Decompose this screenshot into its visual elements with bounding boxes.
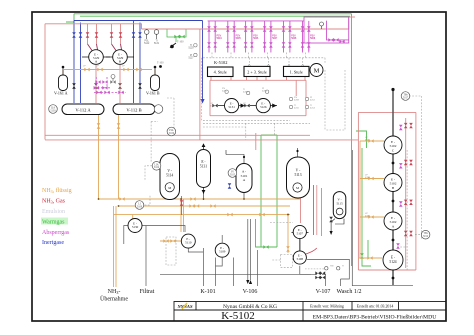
wire red header mid (142, 28, 200, 30)
wire red mid riser (255, 133, 257, 150)
wire red cross header 2 (45, 134, 310, 136)
orange stubs to V-161 (63, 70, 155, 75)
legend Warmgas (41, 218, 68, 225)
green valve pair in box (174, 35, 179, 39)
title block row divider (174, 309, 446, 311)
black connector E-5131 bottom to header (203, 194, 205, 200)
svg-text:M: M (296, 186, 299, 190)
signal lines compressor bottom (203, 119, 290, 121)
blue valve 4 (138, 32, 142, 37)
wire orange E-5110 inlet (160, 240, 181, 242)
magenta station valves (207, 26, 402, 248)
blue valve 3 (132, 32, 136, 37)
svg-text:5114: 5114 (166, 174, 173, 178)
instrument LIA V-5114 (152, 162, 161, 171)
main grey header line to E-5102 chain (392, 90, 394, 286)
svg-text:5006: 5006 (253, 38, 259, 40)
svg-text:5107: 5107 (297, 231, 304, 235)
signal vertical left of skid (201, 58, 203, 121)
wire V-107 leg (300, 266, 326, 286)
wire orange V-112B drop (118, 115, 120, 200)
wire red stufe23 drops (247, 77, 267, 81)
svg-text:4338: 4338 (365, 177, 371, 179)
wire red top right down (349, 16, 355, 18)
wire leg x233 (233, 258, 235, 287)
signal box bottom left (166, 237, 176, 265)
wire leg x257 (257, 250, 259, 286)
svg-text:5108: 5108 (297, 257, 304, 261)
wire red E-5129B outlet (119, 65, 121, 104)
station drop triangles (248, 64, 305, 67)
instrument circle right of V112B (154, 105, 163, 114)
instrument circle LIA V112A (49, 105, 58, 114)
orange valves E-5110 inlet (163, 239, 168, 243)
svg-text:V -: V - (296, 169, 301, 173)
svg-text:NH3-: NH3- (108, 289, 121, 295)
green box drop (175, 37, 177, 42)
red valve B1 (110, 32, 114, 37)
exchanger E-5124 (383, 250, 403, 270)
junction dots on orange headers (98, 198, 289, 215)
svg-text:Emulsion: Emulsion (42, 209, 65, 215)
node dot top (391, 88, 394, 91)
pump E-5129 A (82, 50, 110, 65)
wire green mid riser right (276, 135, 278, 247)
magenta cluster valves (94, 80, 124, 94)
black connector A-5101 bottom (243, 193, 245, 200)
wire blue drop V-112A right (80, 23, 82, 104)
svg-text:4. Stufe: 4. Stufe (214, 70, 227, 75)
blue valve 1 (72, 32, 76, 37)
vessel V-112 B (113, 104, 155, 115)
wire orange E-5124 inlet (358, 257, 382, 259)
svg-text:5106: 5106 (169, 132, 175, 135)
wire orange uebernahme drop 2 (115, 206, 117, 287)
wire red right box left (357, 112, 359, 270)
wire grey frame bottom right (352, 150, 413, 286)
wasch instrument circles (325, 267, 340, 270)
lines left of V-5115 (313, 185, 315, 235)
svg-text:5005: 5005 (236, 38, 242, 40)
svg-text:Erstellt am: 01.03.2014: Erstellt am: 01.03.2014 (357, 305, 394, 309)
wire red header mid drop (199, 29, 201, 140)
wire green header top 1 (74, 13, 352, 15)
svg-text:Filtrat: Filtrat (140, 289, 155, 295)
magenta box valves (328, 38, 333, 42)
cooler E-5131 circle (218, 99, 245, 113)
wire E-5108 right run (307, 259, 349, 286)
cooler E-5130 (128, 219, 142, 233)
wire red right box bottom (358, 269, 416, 271)
BOTTOM STREAM LABELS (100, 289, 362, 303)
wire orange E-5102B inlet (360, 178, 384, 180)
wire red frame top (45, 24, 142, 29)
wire red compressor loop bottom (210, 115, 306, 117)
wire green mid riser left (260, 135, 262, 247)
vessel V-5114 (160, 154, 180, 200)
dashed stub left of E-5107 (270, 222, 293, 224)
svg-text:V-112 B: V-112 B (126, 108, 141, 113)
svg-text:5113: 5113 (294, 173, 301, 177)
svg-text:V -: V - (167, 169, 172, 173)
wire orange E-5130 feed (132, 215, 134, 219)
wire blue center drop (202, 21, 204, 100)
black unions on drops (72, 83, 142, 88)
wire red E-5129B feed 2 (120, 24, 122, 44)
signal verticals right of M (324, 70, 326, 130)
cooler E-5110 (181, 234, 195, 248)
red drop to E-5110 (181, 196, 183, 215)
tiny instrument tags (83, 66, 371, 268)
dot T-100 bottom (157, 62, 164, 68)
svg-text:NH3, flüssig: NH3, flüssig (42, 187, 72, 194)
wire green bottom right riser 2 (368, 240, 381, 258)
small instruments compressor area (194, 44, 309, 109)
wire red right col a (405, 118, 407, 268)
motor M (310, 64, 323, 77)
vessel V-112 A (62, 104, 104, 115)
svg-text:5008: 5008 (291, 38, 297, 40)
svg-text:4336: 4336 (243, 106, 249, 108)
svg-text:Absperrgas: Absperrgas (42, 230, 70, 236)
tiny pump symbol T-100 (170, 41, 184, 49)
red valve cluster right col 1 (404, 123, 413, 236)
orange valves V-112 drops (97, 123, 101, 128)
svg-text:V-107: V-107 (316, 289, 331, 295)
magenta valves near E-5102 (399, 125, 403, 130)
signal box bottom mid (281, 254, 293, 267)
blue valve near A-5101 (228, 183, 232, 188)
wire orange V-112A drop (98, 115, 100, 200)
svg-text:5131: 5131 (154, 43, 160, 45)
blue arrow end (200, 99, 204, 104)
V-106 arrows (246, 280, 252, 284)
wire orange E-5102C inlet (360, 140, 384, 142)
V-5115 drain valves (329, 217, 333, 222)
svg-text:NH3, Gas: NH3, Gas (42, 199, 66, 205)
instrument PI top right (401, 92, 410, 101)
orange valves headers mid (119, 197, 124, 201)
signal line compressor top (203, 57, 325, 59)
LEGEND (41, 187, 72, 246)
cooler E-5126 circle (250, 99, 277, 113)
wire bottom header (160, 273, 311, 275)
wire blue header (74, 20, 203, 22)
wire green right downcomer (351, 14, 353, 266)
blue valve 2 (79, 32, 83, 37)
green instrument box top (167, 29, 186, 37)
wire orange right drop (287, 213, 289, 241)
vessel V-161 A (54, 66, 68, 96)
svg-text:4337: 4337 (365, 140, 371, 142)
orange drop to E-5108 (287, 241, 289, 253)
wire red E-5107 riser (300, 180, 302, 223)
red curve E-5108 to column (306, 248, 317, 254)
svg-text:K-101: K-101 (200, 289, 215, 295)
relief valve magenta box (320, 22, 324, 29)
svg-text:5110: 5110 (185, 241, 192, 245)
svg-text:4208: 4208 (294, 100, 300, 102)
column E-5131 vessel (197, 143, 211, 194)
logo cell divider (195, 302, 197, 311)
wire filtrat drop (145, 226, 147, 287)
cooler E-5108 (293, 251, 306, 264)
wire red compressor loop top (210, 79, 306, 81)
wire orange uebernahme drop 1 (113, 206, 115, 287)
wire red inner vertical (295, 80, 297, 96)
wire orange E-5102 riser (359, 141, 361, 258)
node dots between exchangers (392, 162, 395, 165)
red valve B2 (119, 32, 123, 37)
wire K-101 leg 1 (202, 248, 204, 286)
wire blue drop V-112B left (133, 21, 135, 104)
svg-text:5017: 5017 (403, 96, 409, 99)
svg-text:4214: 4214 (310, 108, 316, 110)
wire orange E-5110 drop 2 (183, 199, 185, 232)
signal V-5114 left (145, 166, 152, 180)
instrument PI mid (228, 169, 237, 178)
svg-text:4210: 4210 (294, 108, 300, 110)
svg-text:Wasch 1/2: Wasch 1/2 (336, 289, 361, 295)
NYNAS logo (176, 303, 193, 309)
vessel V-5113 (287, 157, 310, 198)
svg-text:5109: 5109 (219, 250, 226, 254)
magenta box internals (303, 43, 309, 51)
orange valves top header (84, 68, 373, 260)
title block divider erstellt cells (351, 302, 353, 311)
wire green mid bottom link (256, 219, 278, 247)
cooler E-5109 (215, 235, 229, 266)
red converge E-5129B (112, 44, 122, 51)
wire E-5130 left elbow (124, 226, 128, 245)
green valve bottom right (360, 253, 364, 258)
svg-text:2 + 3. Stufe: 2 + 3. Stufe (247, 70, 267, 75)
green valve bottom mid (263, 245, 268, 249)
svg-text:5007: 5007 (272, 38, 278, 40)
svg-text:M: M (168, 186, 171, 190)
wire magenta right box (304, 17, 349, 43)
svg-text:5129: 5129 (188, 48, 194, 50)
wire red right box top (358, 111, 416, 113)
svg-text:TBI: TBI (330, 266, 334, 268)
svg-text:5127: 5127 (188, 58, 194, 60)
wire green header top 2 (80, 15, 350, 17)
actuated valve center top (111, 75, 115, 82)
exchanger E-5102 C (384, 136, 402, 154)
wasch signal dashes (305, 268, 324, 270)
svg-text:V-112 A: V-112 A (75, 108, 91, 113)
wire orange top header (64, 69, 152, 71)
svg-text:4204: 4204 (243, 92, 249, 94)
svg-text:K-5102: K-5102 (221, 310, 255, 322)
svg-text:T-100: T-100 (177, 41, 184, 44)
instrument PI bottom right (421, 230, 430, 239)
title block vertical divider main (302, 302, 304, 322)
wire red stufe4 drops (211, 77, 231, 81)
wire blue drop V-112B right (139, 23, 141, 104)
red converge E-5129A (88, 44, 98, 51)
wire red E-5129A outlet (95, 65, 97, 104)
svg-text:4206: 4206 (262, 91, 268, 93)
svg-text:5104: 5104 (154, 166, 160, 169)
vessel V-161 B (146, 66, 160, 96)
wire E-5107 E-5108 link (299, 239, 301, 252)
svg-text:5108: 5108 (137, 205, 143, 208)
relief valves top mid (144, 30, 158, 39)
compressor box 1. Stufe (284, 66, 310, 76)
wire red E-5129A feed 1 (87, 24, 89, 44)
svg-text:V-106: V-106 (243, 289, 258, 295)
svg-text:EM-BP3.Daten\BP3-Betrieb\VISIO: EM-BP3.Daten\BP3-Betrieb\VISIO-Fließbild… (313, 313, 437, 320)
orange valves E-5102 inlets (368, 139, 373, 143)
wire red stufe1 drops (287, 77, 306, 81)
compressor box 4. Stufe (208, 67, 234, 77)
cooler E-5107 (292, 225, 309, 238)
vessel V-5115 (330, 192, 346, 235)
svg-text:4339: 4339 (365, 216, 371, 218)
wire red compressor loop left (209, 80, 211, 115)
wire red cross header (45, 139, 358, 141)
svg-text:5131: 5131 (228, 105, 235, 109)
svg-text:4335: 4335 (210, 106, 216, 108)
signal right top (409, 95, 421, 97)
svg-text:B: B (119, 60, 121, 64)
svg-text:5130: 5130 (132, 225, 139, 229)
svg-text:1. Stufe: 1. Stufe (290, 70, 303, 75)
svg-text:K-5102: K-5102 (214, 60, 227, 65)
compressor box 2+3 Stufe (244, 66, 270, 76)
red valve A2 (95, 32, 99, 37)
wire red frame left vertical (44, 24, 46, 140)
wire green header left drop (66, 14, 74, 22)
wire green mid top link (261, 134, 277, 136)
svg-text:5103: 5103 (50, 109, 56, 112)
wire blue drop V-112A left (73, 21, 75, 104)
wire V-106 duo (248, 219, 251, 280)
svg-text:Übernahme: Übernahme (100, 296, 128, 303)
svg-text:5124: 5124 (389, 260, 396, 264)
black connector V-5113 top (297, 148, 299, 157)
svg-text:Inertgase: Inertgase (42, 240, 64, 246)
wire red top right link (200, 17, 349, 29)
signal to PI bottom (415, 234, 421, 236)
TITLE BLOCK (174, 302, 446, 322)
wire red compressor loop right (305, 80, 307, 115)
relief valve tags (144, 41, 194, 60)
exchanger E-5102 A (384, 212, 402, 230)
svg-text:5105: 5105 (230, 173, 236, 176)
instrument LI mid (135, 201, 144, 210)
wire orange header 3 (114, 214, 291, 216)
svg-text:5004: 5004 (217, 38, 223, 40)
wire E-5110 bottom elbow (188, 248, 203, 252)
black connector A-5101 top (226, 150, 244, 164)
signal station drops (212, 53, 306, 58)
svg-text:5126: 5126 (260, 105, 267, 109)
svg-text:M: M (314, 68, 320, 75)
wire red right box right (415, 112, 417, 270)
wasch valve cluster (315, 271, 325, 279)
svg-text:5012: 5012 (423, 235, 429, 238)
svg-text:V-161 B: V-161 B (146, 91, 160, 96)
wire magenta header (208, 20, 304, 22)
signal lines mid (203, 126, 246, 128)
svg-text:5142: 5142 (144, 43, 150, 45)
red valve A1 (86, 32, 90, 37)
wire orange header 2 (119, 205, 291, 207)
magenta station drops (209, 21, 215, 53)
wire red E-5129B feed 1 (111, 24, 113, 44)
station tags (217, 36, 316, 41)
svg-text:5115: 5115 (336, 201, 343, 205)
wire E-5130 right line (142, 226, 185, 233)
svg-text:4202: 4202 (222, 91, 228, 93)
vessel A-5101 A (236, 164, 252, 193)
wire orange E-5110 drop 1 (180, 199, 182, 232)
wire orange E-5102A inlet (360, 216, 384, 218)
svg-text:4212: 4212 (310, 100, 316, 102)
svg-text:T-100: T-100 (157, 62, 164, 65)
wire green link to E-5102C (356, 131, 367, 148)
wire K-101 leg 2 (215, 258, 217, 287)
pump inlet valves (212, 104, 217, 108)
svg-text:5131: 5131 (200, 165, 207, 169)
wire red E-5129A feed 2 (96, 24, 98, 44)
magenta dashed cluster left (94, 77, 126, 92)
exchanger E-5102 B (384, 174, 402, 192)
svg-text:V-161 A: V-161 A (54, 91, 68, 96)
wire orange header 1 (99, 198, 301, 200)
svg-text:Erstellt von: Möhring: Erstellt von: Möhring (310, 305, 344, 309)
svg-text:Warmgas: Warmgas (42, 220, 65, 226)
instrument PI near V-112B drop (167, 127, 176, 136)
pump E-5129 B (106, 50, 134, 65)
title block outer box (174, 302, 446, 322)
svg-text:5009: 5009 (310, 38, 316, 40)
wire green bottom right riser 1 (362, 148, 371, 266)
